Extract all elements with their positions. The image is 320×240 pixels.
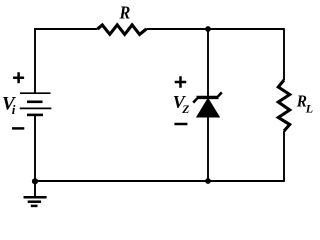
battery Vi plate 1 (long, +) xyxy=(20,92,51,94)
wire zener branch lower (zener anode down to node C) xyxy=(207,117,209,181)
wire bottom horizontal (node B to node C) xyxy=(35,180,208,182)
zener diode VZ anode triangle xyxy=(197,99,220,118)
svg-text:Z: Z xyxy=(181,104,189,116)
wire left vertical (battery down to bottom node) xyxy=(34,116,36,181)
wire top from resistor R to node A xyxy=(146,28,208,30)
wire zener branch upper (node A down to zener cathode) xyxy=(207,29,209,97)
ground stub wire xyxy=(34,181,36,196)
plus sign at zener xyxy=(175,76,187,88)
wire top-left horizontal (battery + to resistor R) xyxy=(35,28,98,30)
wire bottom horizontal (node C to right corner) xyxy=(208,180,284,182)
svg-text:R: R xyxy=(119,3,131,23)
node A (top junction dot) xyxy=(205,26,211,32)
wire right vertical (resistor RL down to bottom corner) xyxy=(283,131,285,182)
battery Vi plate 3 (long) xyxy=(20,107,52,109)
svg-text:i: i xyxy=(12,102,16,117)
plus sign at battery xyxy=(13,72,24,83)
wire left vertical (top corner down to battery) xyxy=(34,28,36,93)
zener bar left tail xyxy=(193,99,197,103)
resistor RL xyxy=(278,80,289,131)
battery Vi plate 2 (short) xyxy=(27,101,43,104)
battery Vi plate 4 (short, -) xyxy=(27,114,43,117)
node B (bottom-left junction dot) xyxy=(32,178,38,184)
node C (bottom-middle junction dot) xyxy=(205,178,211,184)
minus sign at zener xyxy=(174,123,187,126)
wire top from node A to right corner xyxy=(208,28,284,30)
wire right vertical (top corner down to resistor RL) xyxy=(283,28,285,80)
resistor R xyxy=(98,25,147,35)
zener diode VZ cathode bar xyxy=(197,96,219,99)
minus sign at battery xyxy=(12,127,24,130)
ground xyxy=(24,197,47,206)
zener bar right tail xyxy=(218,92,222,96)
svg-text:L: L xyxy=(305,102,313,116)
